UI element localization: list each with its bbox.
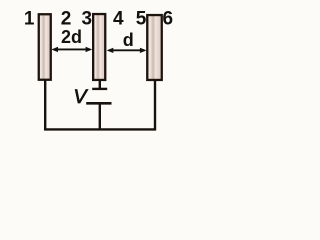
svg-text:4: 4 <box>113 9 124 30</box>
battery V: short terminal plate <box>92 88 107 90</box>
wire from plate P1 bottom, bottom bus, wire to plate P3 bottom <box>45 80 155 129</box>
svg-text:V: V <box>73 86 88 108</box>
svg-text:1: 1 <box>24 9 35 30</box>
wire from battery to bottom bus <box>99 103 101 129</box>
plate P2 (middle capacitor plate) <box>93 14 105 80</box>
svg-text:2d: 2d <box>61 27 82 47</box>
battery V: long terminal plate <box>86 102 111 105</box>
plate P3 (right capacitor plate) <box>147 15 162 80</box>
plate P1 (left capacitor plate) <box>39 14 51 80</box>
svg-text:5: 5 <box>136 9 147 30</box>
svg-text:d: d <box>123 30 134 50</box>
dimension arrow 2d (double-headed) <box>51 47 92 52</box>
svg-text:3: 3 <box>82 9 93 30</box>
wire from plate P2 bottom to battery + terminal <box>99 80 101 90</box>
svg-text:6: 6 <box>163 9 174 30</box>
dimension arrow d (double-headed) <box>107 48 147 53</box>
